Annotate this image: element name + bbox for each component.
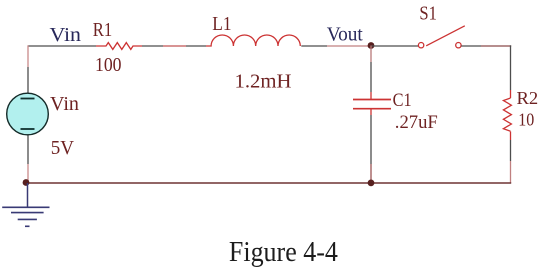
inductor L1 body — [206, 35, 300, 46]
wire R1 to L1 gray segment — [142, 45, 163, 47]
wire L1 to Vout gray segment — [301, 45, 327, 47]
svg-text:.27uF: .27uF — [395, 112, 438, 133]
resistor R2 bottom lead — [510, 132, 512, 141]
wire capacitor C1 stem pink upper — [370, 46, 372, 63]
svg-text:1.2mH: 1.2mH — [235, 70, 292, 92]
svg-text:Vin: Vin — [50, 24, 82, 46]
voltage source plus terminal dash — [21, 98, 35, 100]
wire left rail upper gray part — [27, 67, 29, 94]
wire left rail upper (corner down to source top), pink part — [27, 45, 29, 67]
svg-text:L1: L1 — [212, 13, 231, 35]
wire capacitor C1 stem gray upper — [370, 62, 372, 92]
wire red segment to L1 — [186, 45, 206, 47]
wire left rail lower pink part — [27, 164, 29, 183]
capacitor C1 bottom lead — [370, 109, 372, 115]
wire right rail lower gray segment — [510, 140, 512, 161]
wire L1 to Vout pink segment — [327, 45, 371, 47]
voltage source minus terminal dash — [21, 128, 35, 130]
wire bottom rail — [26, 182, 511, 184]
ground symbol stem — [27, 183, 29, 207]
wire switch to top-right corner maroon segment — [481, 45, 511, 47]
svg-text:Vin: Vin — [50, 93, 79, 115]
svg-text:R2: R2 — [517, 88, 539, 108]
switch S1 left contact circle — [418, 43, 423, 48]
wire right rail upper gray segment — [510, 45, 512, 90]
ground symbol bar 2 — [11, 212, 44, 214]
capacitor C1 top plate — [353, 99, 391, 101]
wire capacitor C1 stem maroon lower — [370, 164, 372, 183]
ground symbol bar 3 — [18, 218, 37, 220]
switch S1 arm — [426, 26, 465, 46]
wire R1 to L1 red segment — [163, 45, 186, 47]
node junction dot bottom middle — [368, 180, 375, 187]
svg-text:S1: S1 — [419, 3, 437, 24]
node junction dot bottom left — [23, 179, 30, 186]
voltage source V1 Vin circle — [7, 93, 49, 135]
wire Vout to switch S1 — [371, 45, 418, 47]
ground symbol bar 1 — [2, 206, 49, 208]
svg-text:C1: C1 — [393, 90, 412, 111]
svg-text:Figure 4-4: Figure 4-4 — [229, 236, 338, 268]
svg-text:R1: R1 — [93, 19, 113, 41]
node Vout junction dot — [368, 42, 375, 49]
wire left rail lower gray part (source bottom down) — [27, 135, 29, 165]
svg-text:10: 10 — [518, 110, 534, 130]
wire switch to top-right corner gray segment — [461, 45, 481, 47]
wire right rail lower pink segment — [510, 161, 512, 183]
svg-text:Vout: Vout — [327, 24, 364, 46]
resistor R2 top lead — [510, 90, 512, 98]
capacitor C1 bottom plate — [353, 108, 391, 110]
svg-text:5V: 5V — [51, 137, 75, 159]
capacitor C1 top lead — [370, 92, 372, 100]
resistor R1 body — [96, 43, 142, 50]
ground symbol bar 4 — [25, 225, 30, 227]
wire top rail left segment (corner to R1) — [28, 45, 96, 47]
svg-text:100: 100 — [95, 54, 122, 76]
resistor R2 body — [503, 98, 511, 131]
switch S1 right contact circle — [456, 43, 461, 48]
wire capacitor C1 stem gray lower — [370, 115, 372, 164]
